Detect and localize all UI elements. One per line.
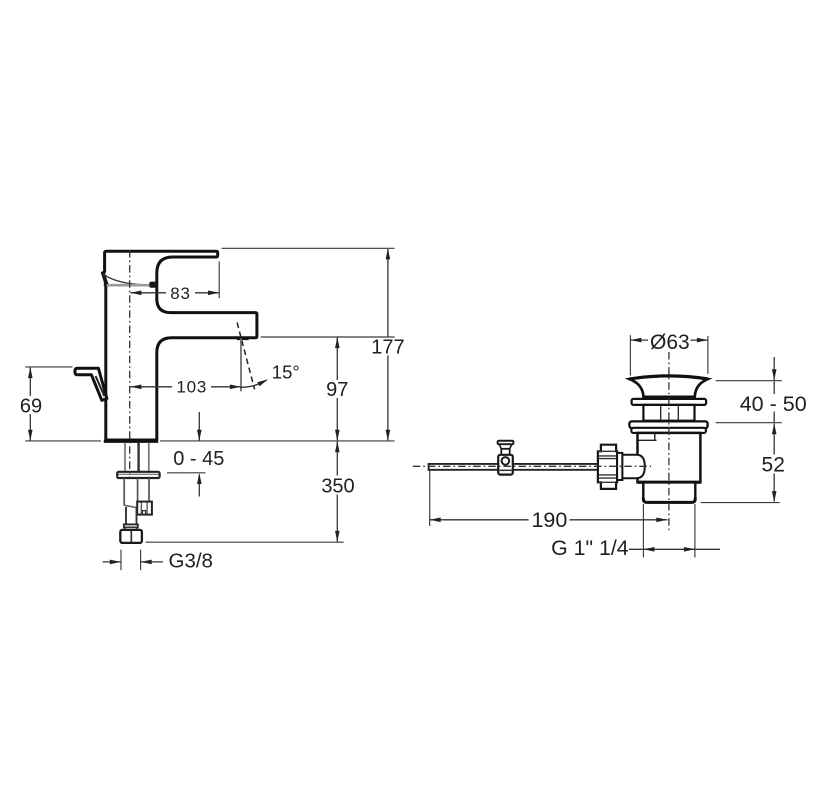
rod clamp cap	[498, 441, 514, 445]
valve notch	[142, 511, 145, 515]
drain trumpet	[629, 376, 708, 397]
dim G3/8 ticks	[120, 550, 122, 571]
clamp screw hole	[502, 457, 510, 465]
handle skirt curve	[103, 274, 149, 285]
clamp neck	[501, 449, 509, 455]
collar neck	[125, 527, 137, 530]
nut split line	[130, 531, 132, 542]
dim 83	[130, 292, 166, 294]
svg-text:350: 350	[321, 475, 354, 497]
angle 15 dashed line	[237, 323, 255, 390]
svg-text:190: 190	[531, 508, 567, 532]
dim dia63 ext left	[629, 335, 631, 375]
dim 52 ext bottom	[701, 502, 780, 504]
trumpet waist band	[643, 397, 695, 400]
rod bottom line	[429, 469, 600, 471]
svg-text:40 - 50: 40 - 50	[740, 392, 807, 416]
trumpet top edge	[629, 376, 708, 379]
ext line nut bottom	[146, 541, 344, 543]
tube right edge	[136, 507, 138, 525]
tail bottom edge	[643, 498, 695, 503]
hose elbow line	[124, 505, 137, 507]
G3/8 nut	[120, 530, 142, 543]
svg-text:52: 52	[762, 454, 785, 477]
ext line base right	[160, 440, 395, 442]
dim 69	[29, 368, 31, 397]
handle base gray line	[107, 284, 150, 287]
handle base junction blob	[149, 282, 156, 288]
threaded stud	[137, 443, 139, 472]
aerator tick	[237, 337, 249, 340]
dim 190 ext left	[429, 471, 431, 527]
svg-text:0 - 45: 0 - 45	[173, 448, 224, 470]
ext line top 177	[222, 247, 395, 249]
nut facet lines	[599, 450, 617, 452]
dim 40-50 ext bottom	[716, 422, 782, 424]
svg-text:97: 97	[326, 379, 348, 401]
dim G3/8 arrows	[103, 561, 121, 563]
drain body	[638, 433, 701, 483]
ext line flange top	[167, 472, 206, 474]
tube left edge	[125, 507, 127, 525]
rod centerline	[413, 465, 651, 467]
mounting flange	[117, 472, 159, 478]
tail pipe	[643, 482, 695, 502]
dim 103	[130, 386, 172, 388]
svg-text:83: 83	[170, 284, 191, 303]
body boss line	[638, 439, 656, 441]
dim dia63	[630, 339, 648, 341]
svg-text:69: 69	[20, 396, 42, 418]
plate 2	[631, 428, 706, 433]
faucet centerline	[129, 250, 131, 478]
shaft line left	[123, 478, 125, 506]
supply hose left	[124, 443, 126, 472]
drain rod white core	[429, 465, 599, 470]
rod nut	[598, 445, 617, 489]
dim 190	[430, 519, 529, 521]
dim G1-1/4 ext right	[694, 504, 696, 558]
svg-text:Ø63: Ø63	[650, 331, 690, 354]
collar	[124, 524, 138, 527]
drain pull lever	[75, 368, 107, 400]
connector cylinder	[622, 455, 644, 478]
dim G1-1/4 ext left	[642, 504, 644, 558]
dim 0-45 lower arrow	[198, 475, 200, 497]
ring 2	[629, 421, 707, 428]
ring 1	[632, 399, 707, 405]
svg-text:15°: 15°	[272, 361, 300, 382]
rod end cap	[428, 463, 430, 471]
body boss edge	[654, 434, 656, 441]
dim 0-45 upper arrow	[198, 412, 200, 441]
dim G1-1/4 line	[629, 548, 720, 550]
dim 40-50 lines	[773, 357, 775, 380]
dim 40-50 ext top	[716, 380, 782, 382]
core inner right	[677, 406, 679, 420]
valve facet lines	[140, 503, 142, 515]
supply hose right	[148, 443, 150, 472]
svg-text:G 1" 1/4: G 1" 1/4	[551, 536, 629, 560]
nut collar	[617, 453, 622, 480]
dim 52	[773, 424, 775, 455]
ext line spout bottom	[261, 336, 395, 338]
clamp taper	[499, 444, 511, 449]
clamp lower line	[499, 469, 512, 471]
shaft line right	[148, 478, 150, 502]
faucet base bottom edge	[104, 440, 158, 443]
core	[643, 405, 694, 421]
svg-text:103: 103	[176, 378, 207, 397]
svg-text:G3/8: G3/8	[169, 550, 213, 573]
clamp body	[498, 455, 513, 475]
core inner left	[660, 406, 662, 420]
drain centerline	[668, 352, 670, 531]
dim 97	[336, 338, 338, 381]
flange inner line	[119, 473, 159, 475]
handle cap notch band	[101, 272, 108, 285]
valve block	[137, 502, 152, 515]
dim 350	[336, 442, 338, 476]
lever inner line	[96, 376, 105, 396]
ext line handle right	[218, 262, 220, 299]
ext line lever top	[25, 366, 72, 368]
ext line aerator	[240, 339, 242, 392]
rod top line	[429, 463, 600, 465]
dim dia63 ext right	[707, 336, 709, 374]
dim 177	[387, 249, 389, 337]
body bottom edge	[638, 481, 700, 484]
ext line base left	[25, 440, 101, 442]
angle 15 arc	[240, 380, 267, 387]
svg-text:177: 177	[371, 336, 404, 358]
shaft line mid	[137, 478, 139, 506]
faucet body outline	[102, 251, 257, 440]
